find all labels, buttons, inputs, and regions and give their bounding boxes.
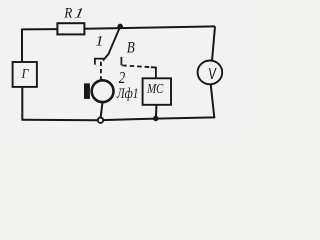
wire: voltmeter bottom to bottom-right corner bbox=[211, 84, 215, 118]
microphone Lf1 circle bbox=[92, 80, 114, 102]
wire: left rail upper (corner to generator box) bbox=[21, 29, 23, 63]
wire: right rail (top corner down to voltmeter) bbox=[212, 26, 215, 61]
wire: microphone bottom to terminal ring bbox=[101, 102, 103, 117]
microphone bar bbox=[84, 83, 90, 99]
wire: resistor to junction to top-right corner bbox=[84, 26, 215, 28]
generator box G bbox=[13, 62, 37, 87]
resistor R1 bbox=[57, 23, 84, 34]
svg-text:1: 1 bbox=[95, 34, 103, 50]
svg-text:В: В bbox=[127, 39, 135, 56]
node: open terminal ring on bottom rail bbox=[98, 118, 103, 123]
node: junction dot bottom (MC to rail) bbox=[153, 116, 158, 121]
wire: top-left horizontal to resistor bbox=[22, 28, 57, 30]
switch contact 2 bbox=[120, 57, 122, 66]
MC box bbox=[143, 78, 171, 105]
svg-text:R: R bbox=[63, 5, 72, 22]
svg-text:МС: МС bbox=[146, 81, 164, 96]
switch contact 1 bbox=[95, 59, 104, 65]
wire: dashed from contact 2 to MC box bbox=[122, 65, 151, 67]
wire: MC box bottom to junction on bottom rail bbox=[155, 105, 158, 119]
switch B blade bbox=[103, 27, 120, 60]
wire: dashed from contact 1 down to microphone bbox=[100, 62, 102, 81]
voltmeter V bbox=[198, 61, 223, 85]
svg-text:Г: Г bbox=[21, 65, 29, 81]
node: junction dot top (switch common) bbox=[117, 24, 123, 30]
wire: bottom rail bbox=[22, 117, 214, 120]
paper background bbox=[0, 0, 242, 132]
wire: elbow into MC box top bbox=[151, 67, 156, 78]
wire: left rail lower (generator box to bottom wire) bbox=[21, 87, 23, 121]
svg-text:Лф1: Лф1 bbox=[116, 84, 138, 101]
